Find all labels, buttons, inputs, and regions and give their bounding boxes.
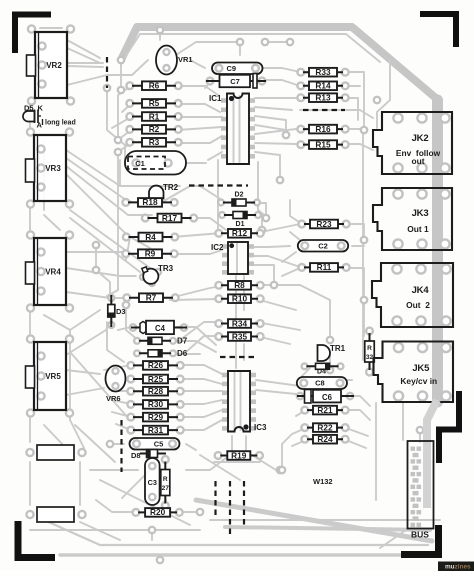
svg-text:K: K: [38, 104, 44, 113]
svg-text:D1: D1: [236, 221, 245, 228]
resistor R28: [127, 386, 183, 396]
diode D3: [108, 295, 126, 328]
svg-text:D2: D2: [235, 192, 244, 199]
svg-text:TR1: TR1: [330, 344, 346, 353]
svg-text:R7: R7: [146, 293, 157, 303]
svg-text:D4: D4: [317, 369, 326, 376]
wire: dashed link near VR2: [106, 57, 108, 88]
trimmer potentiometer VR5: [26, 335, 74, 416]
resistor R24: [301, 434, 348, 444]
svg-text:R3: R3: [149, 137, 160, 147]
resistor R13: [297, 93, 348, 103]
svg-text:D5: D5: [24, 104, 34, 113]
resistor R19: [215, 450, 263, 460]
diode D6: [134, 349, 188, 358]
capacitor C6: [297, 390, 354, 404]
capacitor C8: [297, 377, 347, 389]
transistor TR3: [140, 264, 174, 286]
resistor R26: [127, 360, 183, 370]
resistor R27 (vertical): [161, 456, 170, 509]
resistor R6: [126, 81, 181, 91]
link LK2: [26, 507, 85, 522]
svg-text:R15: R15: [315, 139, 331, 149]
wire: dashed link left of C5: [120, 420, 122, 472]
IC IC3: [222, 371, 267, 432]
wire: via pads: [93, 27, 423, 563]
resistor R11: [298, 262, 349, 272]
svg-text:VR3: VR3: [45, 164, 61, 173]
diode D4: [302, 363, 344, 375]
resistor R33: [297, 67, 348, 77]
LED D5: [23, 104, 76, 130]
capacitor C3: [145, 458, 160, 505]
svg-text:R11: R11: [317, 262, 332, 272]
resistor R12: [215, 228, 263, 238]
resistor R31: [127, 425, 183, 435]
svg-text:R2: R2: [149, 124, 160, 134]
svg-text:R26: R26: [148, 360, 164, 370]
svg-text:R24: R24: [317, 434, 333, 444]
jack socket JK5: [374, 342, 454, 403]
svg-text:R17: R17: [162, 213, 178, 223]
svg-text:VR6: VR6: [106, 394, 121, 403]
svg-text:R4: R4: [145, 232, 156, 242]
resistor R16: [297, 124, 348, 134]
svg-text:R16: R16: [315, 124, 331, 134]
link LK1: [26, 445, 85, 460]
resistor R2: [126, 124, 181, 134]
resistor R29: [127, 412, 183, 422]
svg-text:R20: R20: [150, 507, 166, 517]
svg-text:long lead: long lead: [45, 120, 76, 127]
transistor TR1: [318, 344, 346, 361]
transistor TR2: [149, 183, 179, 199]
svg-text:C3: C3: [148, 478, 157, 487]
resistor R32 (vertical): [365, 328, 375, 376]
IC IC2: [211, 242, 254, 275]
resistor R21: [301, 405, 348, 415]
svg-text:VR5: VR5: [45, 372, 61, 381]
svg-text:C4: C4: [155, 324, 166, 333]
svg-text:IC1: IC1: [209, 94, 222, 103]
svg-text:R22: R22: [317, 422, 333, 432]
svg-text:R30: R30: [148, 399, 164, 409]
svg-text:A: A: [37, 121, 43, 130]
svg-text:R: R: [367, 345, 372, 352]
svg-text:IC3: IC3: [254, 423, 267, 432]
diode D8: [131, 450, 166, 461]
svg-text:TR3: TR3: [158, 264, 174, 273]
svg-text:C6: C6: [322, 393, 333, 402]
svg-text:D6: D6: [177, 349, 188, 358]
resistor R1: [126, 111, 181, 121]
wire: dashed link above IC3: [220, 356, 258, 358]
svg-text:Out 2: Out 2: [406, 300, 430, 310]
svg-text:Out 1: Out 1: [407, 224, 429, 234]
svg-text:R33: R33: [315, 67, 331, 77]
wire: PCB copper trace network (background): [30, 27, 440, 555]
resistor R5: [126, 98, 181, 108]
svg-text:R10: R10: [232, 294, 248, 304]
svg-text:C2: C2: [318, 241, 328, 250]
svg-text:VR4: VR4: [45, 268, 61, 277]
resistor R23: [298, 219, 349, 229]
svg-text:R: R: [163, 476, 168, 483]
svg-text:out: out: [411, 156, 424, 166]
wire: dashed links bottom centre: [216, 481, 245, 537]
diode D7: [134, 337, 188, 346]
svg-text:D7: D7: [177, 337, 188, 346]
capacitor C4: [130, 321, 187, 334]
svg-text:R21: R21: [317, 405, 333, 415]
svg-text:R5: R5: [149, 98, 160, 108]
svg-text:Key/cv in: Key/cv in: [400, 376, 437, 386]
svg-text:R29: R29: [148, 412, 164, 422]
svg-text:C9: C9: [226, 64, 236, 73]
svg-text:R12: R12: [232, 228, 248, 238]
svg-text:JK4: JK4: [412, 285, 430, 296]
svg-text:C1: C1: [135, 159, 145, 168]
svg-text:27: 27: [162, 485, 170, 492]
svg-text:32: 32: [366, 354, 374, 361]
svg-text:R18: R18: [142, 197, 158, 207]
trimmer potentiometer VR1: [156, 46, 193, 75]
svg-text:R25: R25: [148, 374, 164, 384]
svg-text:muzines: muzines: [445, 564, 471, 571]
wire: dashed link below R13: [303, 109, 345, 111]
capacitor C7: [206, 74, 266, 89]
wire: copper band behind BUS connector: [427, 400, 437, 508]
svg-text:D8: D8: [131, 451, 141, 460]
resistor R20: [133, 507, 183, 517]
IC IC1: [209, 94, 255, 165]
svg-text:W132: W132: [313, 477, 333, 486]
svg-text:C8: C8: [315, 379, 325, 388]
svg-text:R28: R28: [148, 386, 164, 396]
svg-text:JK3: JK3: [412, 208, 429, 219]
resistor R9: [122, 249, 177, 259]
svg-text:VR1: VR1: [178, 55, 193, 64]
trimmer potentiometer VR4: [26, 231, 74, 311]
resistor R10: [215, 294, 263, 304]
svg-text:R6: R6: [149, 81, 160, 91]
wire: dashed link above IC2 row: [189, 184, 248, 186]
svg-text:VR2: VR2: [46, 61, 62, 70]
resistor R8: [215, 280, 263, 290]
svg-text:C5: C5: [154, 439, 164, 448]
svg-text:R1: R1: [149, 111, 160, 121]
jack socket JK3: [373, 188, 452, 250]
resistor R35: [215, 331, 263, 341]
resistor R22: [301, 422, 348, 432]
svg-text:JK5: JK5: [412, 363, 430, 374]
svg-text:R19: R19: [231, 450, 247, 460]
svg-text:R34: R34: [232, 318, 248, 328]
svg-text:D3: D3: [116, 307, 126, 316]
svg-text:BUS: BUS: [411, 530, 429, 540]
svg-text:TR2: TR2: [163, 183, 179, 192]
capacitor C1: [125, 151, 186, 175]
svg-text:C7: C7: [230, 77, 240, 86]
diode D2: [218, 192, 260, 207]
trimmer potentiometer VR2: [27, 25, 75, 104]
svg-text:R35: R35: [232, 331, 248, 341]
resistor R25: [127, 374, 183, 384]
svg-text:R14: R14: [315, 81, 331, 91]
resistor R30: [127, 399, 183, 409]
capacitor C9: [212, 63, 263, 75]
svg-text:IC2: IC2: [211, 243, 224, 252]
jack socket JK2: [373, 112, 452, 174]
diode D1: [219, 212, 261, 229]
svg-text:R8: R8: [234, 280, 245, 290]
svg-text:R23: R23: [316, 219, 332, 229]
capacitor C2: [298, 240, 348, 252]
resistor R15: [297, 139, 348, 149]
svg-text:JK2: JK2: [412, 133, 429, 144]
resistor R7: [123, 293, 178, 303]
capacitor C5: [130, 438, 180, 450]
trimmer potentiometer VR3: [26, 128, 74, 207]
resistor R4: [123, 232, 178, 242]
svg-text:R9: R9: [145, 249, 156, 259]
connector BUS: [408, 441, 434, 540]
jack socket JK4: [372, 263, 453, 327]
resistor R3: [126, 137, 181, 147]
resistor R14: [297, 81, 348, 91]
trimmer potentiometer VR6: [106, 366, 126, 404]
svg-text:R13: R13: [315, 93, 331, 103]
resistor R17: [142, 213, 197, 223]
resistor R34: [215, 318, 263, 328]
resistor R18: [122, 197, 177, 207]
watermark muzines: [438, 562, 474, 572]
svg-text:R31: R31: [148, 425, 164, 435]
